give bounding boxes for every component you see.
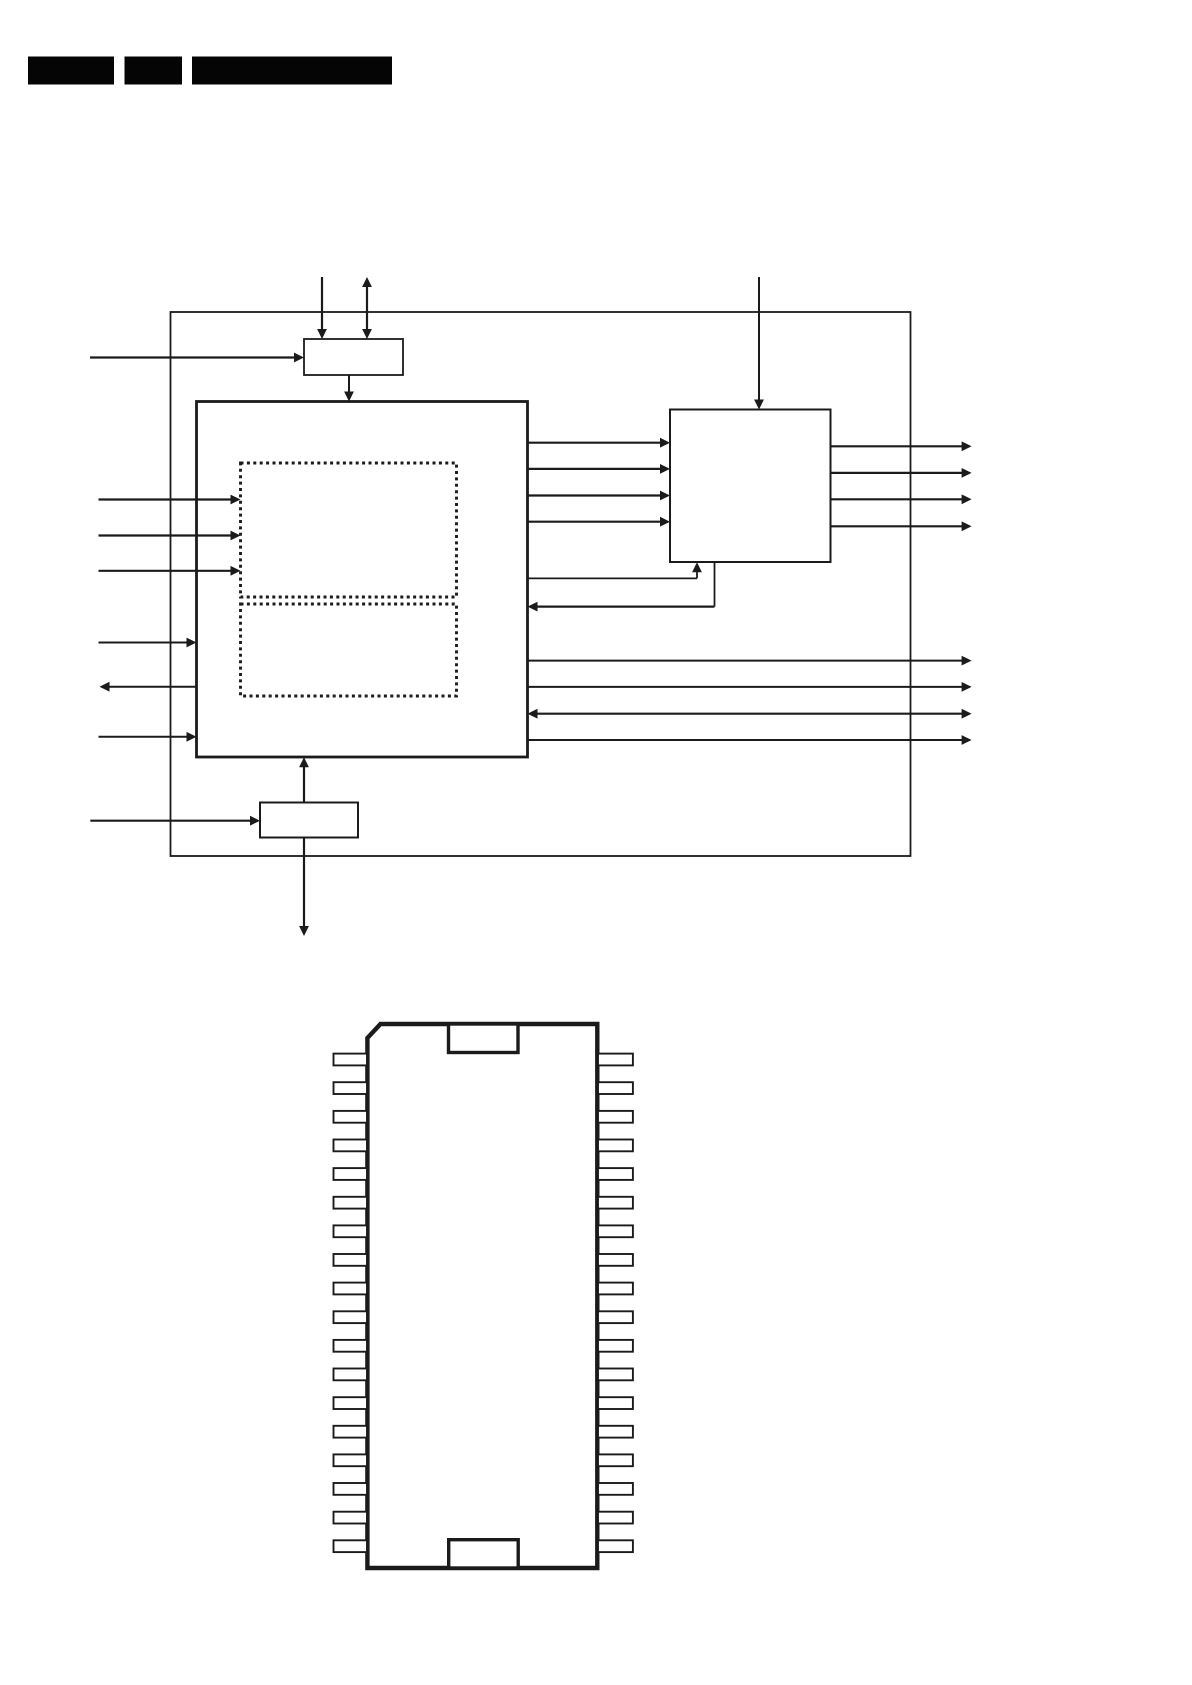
- IC pin 35 (right side): [598, 1082, 633, 1094]
- output wire 4 from output driver to right pins: [831, 525, 963, 527]
- IC pin 3 (left side): [334, 1111, 368, 1123]
- wire output from main controller block to left: [109, 686, 197, 688]
- outer boundary of IC block diagram: [171, 312, 911, 856]
- IC pin 23 (right side): [598, 1426, 633, 1438]
- bus wire 1 from controller to output driver: [528, 442, 662, 444]
- IC pin 36 (right side): [598, 1054, 633, 1066]
- output wire 3 from output driver to right pins: [831, 498, 963, 500]
- output wire 1 from output driver to right pins: [831, 445, 963, 447]
- IC pin 8 (left side): [334, 1254, 368, 1266]
- IC package body with chamfered corner: [367, 1024, 597, 1568]
- wire from top interface box into main controller block: [348, 375, 350, 393]
- dotted sub-block A: [241, 463, 457, 597]
- bidirectional long wire (left arrowhead): [528, 709, 538, 719]
- IC pin 20 (right side): [598, 1512, 633, 1524]
- wire input 2 to dotted sub-block A: [99, 534, 232, 536]
- wire input to main controller block (lower): [99, 736, 188, 738]
- wire input to top interface box: [90, 356, 295, 358]
- IC pin 2 (left side): [334, 1082, 368, 1094]
- bus wire 4 from controller to output driver: [528, 521, 662, 523]
- IC pin 22 (right side): [598, 1454, 633, 1466]
- wire from top pin down to output driver block: [758, 277, 760, 401]
- IC pin 10 (left side): [334, 1311, 368, 1323]
- top interface box: [304, 339, 403, 375]
- IC pin 18 (left side): [334, 1540, 368, 1552]
- IC pin 21 (right side): [598, 1483, 633, 1495]
- IC pin 34 (right side): [598, 1111, 633, 1123]
- bidirectional long wire (body and right arrowhead): [537, 713, 963, 715]
- IC pin 32 (right side): [598, 1168, 633, 1180]
- IC pin 14 (left side): [334, 1426, 368, 1438]
- IC pin 17 (left side): [334, 1512, 368, 1524]
- wire input 1 to dotted sub-block A: [99, 498, 232, 500]
- IC pin 11 (left side): [334, 1340, 368, 1352]
- output wire 2 from output driver to right pins: [831, 472, 963, 474]
- wire input to main controller block (upper): [99, 642, 188, 644]
- long output wire 3 to right: [528, 739, 963, 741]
- long output wire 1 to right: [528, 660, 963, 662]
- wire into top interface box (input pin, down arrow): [321, 277, 323, 331]
- long output wire 2 to right: [528, 686, 963, 688]
- IC pin 12 (left side): [334, 1369, 368, 1381]
- IC pin 6 (left side): [334, 1197, 368, 1209]
- IC pin 1 (left side): [334, 1054, 368, 1066]
- bidirectional wire at top interface box (up arrow): [366, 286, 368, 331]
- IC pin 13 (left side): [334, 1397, 368, 1409]
- bus wire 2 from controller to output driver: [528, 468, 662, 470]
- IC pin 28 (right side): [598, 1283, 633, 1295]
- redacted header text block 3: [192, 57, 392, 85]
- IC pin 26 (right side): [598, 1340, 633, 1352]
- main controller block: [197, 402, 528, 758]
- IC pin 19 (right side): [598, 1540, 633, 1552]
- IC pin 25 (right side): [598, 1369, 633, 1381]
- IC top index notch: [449, 1024, 519, 1053]
- wire input to bottom oscillator box: [90, 820, 251, 822]
- IC pin 29 (right side): [598, 1254, 633, 1266]
- feedback wire from controller up into driver bottom: [528, 577, 698, 579]
- output driver block: [670, 410, 831, 563]
- IC pin 4 (left side): [334, 1140, 368, 1152]
- IC pin 33 (right side): [598, 1140, 633, 1152]
- wire input 3 to dotted sub-block A: [99, 570, 232, 572]
- IC bottom index notch: [449, 1540, 519, 1568]
- IC pin 16 (left side): [334, 1483, 368, 1495]
- IC pin 24 (right side): [598, 1397, 633, 1409]
- IC pin 30 (right side): [598, 1225, 633, 1237]
- redacted header text block 1: [28, 57, 114, 85]
- IC pin 15 (left side): [334, 1454, 368, 1466]
- feedback wire from driver bottom into controller: [714, 562, 716, 606]
- dotted sub-block B: [241, 604, 457, 696]
- IC pin 9 (left side): [334, 1283, 368, 1295]
- IC pin 31 (right side): [598, 1197, 633, 1209]
- wire from oscillator box up into controller: [303, 766, 305, 803]
- IC pin 5 (left side): [334, 1168, 368, 1180]
- bottom oscillator box: [260, 803, 358, 838]
- IC pin 27 (right side): [598, 1311, 633, 1323]
- IC pin 7 (left side): [334, 1225, 368, 1237]
- wire from oscillator box down to external pin: [303, 838, 305, 927]
- bus wire 3 from controller to output driver: [528, 494, 662, 496]
- bidirectional wire at top interface box (down arrow): [362, 329, 372, 339]
- redacted header text block 2: [125, 57, 183, 85]
